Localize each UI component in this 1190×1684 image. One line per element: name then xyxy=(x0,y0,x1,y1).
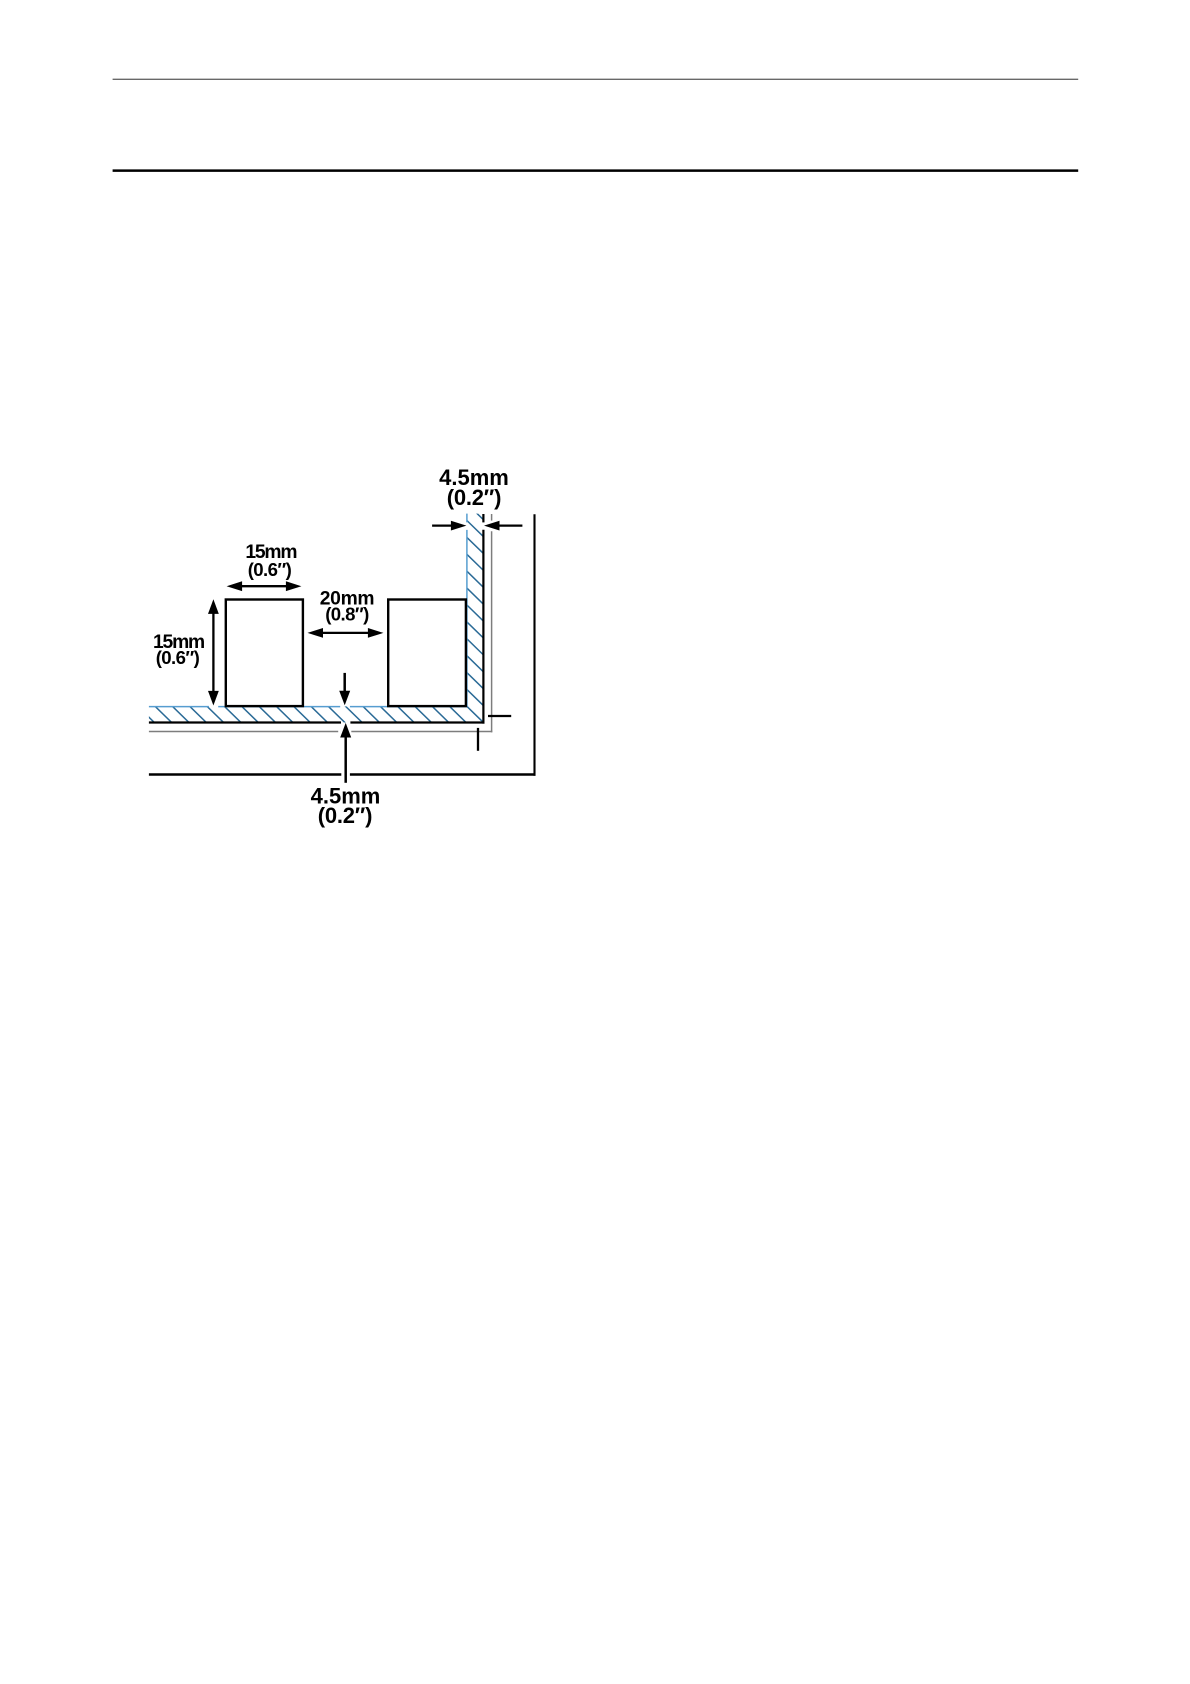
up arrow from below xyxy=(340,723,351,783)
header thin rule xyxy=(113,78,1079,80)
short tick: vertical, below corner xyxy=(477,728,479,751)
down arrow at band top xyxy=(339,673,350,705)
blue edge: strip left (gap at arrow tip halo) xyxy=(466,514,468,523)
svg-text:(0.6″): (0.6″) xyxy=(248,559,292,580)
svg-text:(0.2″): (0.2″) xyxy=(318,803,373,828)
left photo xyxy=(226,600,303,707)
black edge: strip right (gap at arrow tip halo) xyxy=(482,514,484,522)
blue edge: band top (gaps at arrow tips) xyxy=(149,706,209,708)
dim arrow: 15mm height (double) xyxy=(208,599,219,705)
header thick rule xyxy=(113,169,1079,172)
outer glass corner: right edge xyxy=(533,514,535,775)
right photo xyxy=(388,600,466,707)
gray inner reference line: horizontal (gap at up-arrow) xyxy=(149,731,338,733)
dim arrow: 15mm width (double) xyxy=(227,581,302,591)
dim arrow: 20mm gap (double) xyxy=(308,628,384,638)
svg-text:(0.8″): (0.8″) xyxy=(325,604,369,625)
outer glass corner: bottom edge (gap at up-arrow) xyxy=(149,773,341,775)
dim arrows: top 4.5mm pair xyxy=(432,521,522,531)
svg-text:(0.2″): (0.2″) xyxy=(447,485,502,510)
svg-text:(0.6″): (0.6″) xyxy=(156,647,200,668)
gray inner reference line: vertical (gap at arrowheads) xyxy=(491,514,493,521)
short tick: horizontal, right of corner xyxy=(488,715,511,717)
black edge: band bottom (gap at up-arrow tip) xyxy=(149,721,341,723)
